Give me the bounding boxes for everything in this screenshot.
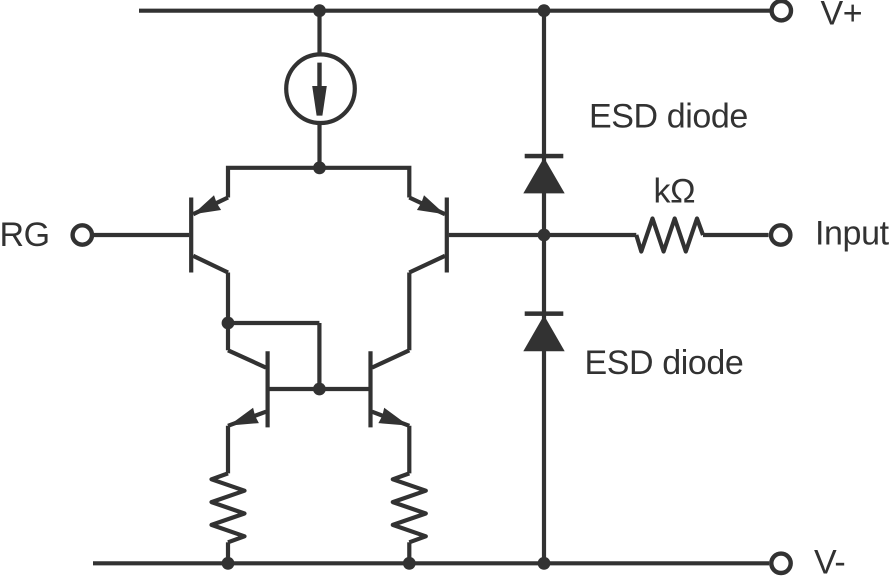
- resistor R1 bottom lead: [226, 542, 230, 563]
- wire Q3-Q4 base rail: [268, 387, 371, 391]
- svg-text:V+: V+: [821, 0, 863, 33]
- wire mirror cross horizontal: [228, 321, 319, 325]
- node bottom rail ESD junction: [538, 557, 551, 570]
- wire V- bottom rail: [93, 561, 769, 565]
- diode D1 ESD to V+ : cathode bar: [525, 154, 564, 159]
- wire emitter rail (tail node): [228, 168, 409, 198]
- wire Q4 emitter vertical: [407, 426, 411, 474]
- transistor Q3 collector diagonal: [228, 350, 266, 367]
- svg-text:kΩ: kΩ: [654, 172, 696, 210]
- svg-text:RG: RG: [0, 216, 50, 254]
- transistor Q4 emitter diagonal: [372, 412, 409, 426]
- svg-text:V-: V-: [814, 544, 845, 576]
- transistor Q3 emitter diagonal: [228, 412, 266, 426]
- wire mirror cross vertical: [317, 323, 321, 389]
- node input junction: [538, 229, 551, 242]
- transistor Q3 base bar: [266, 351, 270, 427]
- wire Q1 collector vertical: [226, 273, 230, 351]
- wire Q2 collector vertical: [407, 273, 411, 351]
- wire V+ top rail: [139, 9, 770, 13]
- svg-text:Input: Input: [815, 215, 890, 253]
- node tail (emitter rail) junction: [313, 161, 326, 174]
- transistor Q4 base bar: [368, 351, 372, 427]
- current source I1 circle: [286, 54, 355, 123]
- transistor Q3 emitter arrow (NPN, points out from base): [229, 408, 259, 426]
- resistor R2 zigzag: [393, 473, 426, 542]
- terminal V-: [771, 554, 790, 573]
- terminal RG: [73, 225, 92, 244]
- wire Q2 base to input node: [449, 233, 544, 237]
- terminal V+: [772, 1, 791, 20]
- transistor Q1 emitter arrow (PNP, points into base): [193, 195, 221, 214]
- wire current source top lead: [317, 11, 321, 56]
- node Q1 collector / mirror junction: [222, 317, 235, 330]
- diode D2 triangle: [523, 315, 564, 351]
- resistor R2 bottom lead: [407, 542, 411, 563]
- transistor Q1 emitter diagonal: [193, 198, 228, 215]
- wire input line left segment: [544, 233, 636, 237]
- node bottom rail R2 junction: [403, 557, 416, 570]
- transistor Q1 base bar: [189, 198, 193, 273]
- resistor R1 zigzag: [212, 473, 245, 542]
- transistor Q2 base bar: [445, 198, 449, 273]
- transistor Q1 collector diagonal: [193, 256, 228, 273]
- node top rail / current source junction: [313, 4, 326, 17]
- svg-text:ESD diode: ESD diode: [589, 98, 748, 136]
- diode D2 ESD to V- : cathode bar: [525, 311, 564, 316]
- transistor Q4 collector diagonal: [372, 350, 409, 367]
- wire current source bottom lead: [317, 123, 321, 168]
- wire input line right segment: [703, 233, 769, 237]
- wire ESD diode branch vertical: [542, 11, 546, 564]
- transistor Q2 emitter arrow (PNP, points into base): [417, 195, 445, 214]
- node top rail / ESD branch junction: [538, 4, 551, 17]
- transistor Q4 emitter arrow (NPN, points out from base): [378, 408, 408, 426]
- wire RG base lead: [92, 233, 189, 237]
- transistor Q2 emitter diagonal: [409, 198, 445, 215]
- wire Q3 emitter vertical: [226, 426, 230, 474]
- transistor Q2 collector diagonal: [409, 256, 445, 273]
- node mirror base junction: [313, 383, 326, 396]
- resistor R3 kohm zigzag: [636, 219, 703, 252]
- diode D1 triangle: [523, 158, 564, 194]
- node bottom rail R1 junction: [222, 557, 235, 570]
- terminal Input: [771, 225, 790, 244]
- current source I1 arrow: [312, 63, 327, 116]
- svg-text:ESD diode: ESD diode: [585, 344, 744, 382]
